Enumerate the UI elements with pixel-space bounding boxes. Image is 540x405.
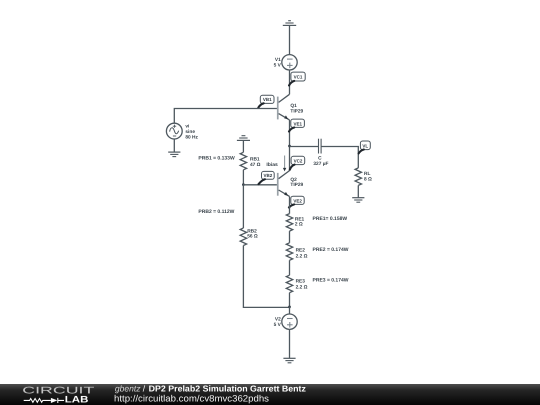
wire V1 to Q1 collector	[289, 70, 291, 94]
svg-text:LAB: LAB	[65, 393, 89, 404]
current arrow Ibias	[283, 156, 286, 172]
svg-text:/: /	[143, 383, 146, 393]
svg-text:PRB1 = 0.133W: PRB1 = 0.133W	[198, 155, 235, 161]
node flag VL	[359, 141, 371, 154]
footer bar	[0, 384, 540, 405]
svg-text:327 µF: 327 µF	[313, 161, 328, 167]
node flag VC2	[290, 156, 305, 169]
svg-text:http://circuitlab.com/cv8mvc36: http://circuitlab.com/cv8mvc362pdhs	[114, 393, 269, 403]
label RB2 56Ω	[247, 228, 258, 239]
wire RE3 to bottom junction	[289, 293, 291, 307]
svg-text:80 Hz: 80 Hz	[185, 135, 198, 141]
wire junction to capacitor	[290, 146, 319, 148]
wire RE2 to RE3	[289, 260, 291, 275]
wire Q1 emitter down to junction	[289, 120, 291, 146]
node flag VB2	[259, 171, 275, 184]
voltage source V2 5V	[282, 314, 297, 329]
label RB1 47Ω	[250, 157, 261, 168]
wire RL to ground	[357, 185, 359, 197]
svg-text:TIP29: TIP29	[290, 109, 303, 115]
svg-text:VC1: VC1	[294, 74, 303, 79]
wire top ground to V1	[289, 25, 291, 54]
label RL 8Ω	[364, 171, 372, 182]
voltage source V1 5V	[282, 55, 297, 70]
transistor Q2 TIP29	[277, 171, 290, 197]
svg-text:C: C	[318, 155, 322, 161]
ground GND above RB1 (inverted)	[237, 136, 250, 141]
label Q2 TIP29	[290, 177, 303, 188]
voltage source vi sine 80 Hz	[166, 123, 182, 139]
svg-text:5 V: 5 V	[274, 322, 282, 328]
wire RB2 to bottom junction	[243, 246, 289, 308]
svg-text:2 Ω: 2 Ω	[295, 222, 303, 228]
label V2 5V	[274, 317, 282, 329]
svg-text:RE3: RE3	[296, 278, 306, 284]
resistor RE2 2.2Ω	[286, 243, 292, 261]
capacitor C 327µF	[319, 139, 322, 154]
wire RE1 to RE2	[289, 231, 291, 243]
svg-text:V1: V1	[275, 57, 281, 63]
resistor RB2 56Ω	[242, 185, 244, 228]
node flag VB1	[258, 95, 274, 107]
resistor RL 8Ω	[355, 168, 361, 185]
wire junction to Q2 collector	[289, 146, 291, 171]
svg-text:PRE1= 0.158W: PRE1= 0.158W	[313, 216, 348, 222]
svg-text:2.2 Ω: 2.2 Ω	[296, 254, 308, 260]
label RE1 2Ω	[295, 217, 305, 228]
label Q1 TIP29	[290, 103, 303, 115]
svg-text:VC2: VC2	[294, 159, 303, 164]
ground GND top (above V1, inverted)	[283, 21, 296, 26]
label RE3 2.2Ω	[296, 278, 308, 290]
svg-text:RL: RL	[364, 171, 370, 177]
svg-text:RB1: RB1	[250, 157, 260, 163]
label C 327µF	[313, 155, 328, 167]
svg-text:47 Ω: 47 Ω	[250, 162, 261, 168]
wire Q2 emitter to RE1	[289, 196, 291, 213]
svg-text:V2: V2	[275, 317, 281, 323]
svg-text:vi: vi	[185, 123, 189, 129]
svg-text:PRE3 = 0.174W: PRE3 = 0.174W	[313, 277, 349, 283]
svg-text:TIP29: TIP29	[290, 182, 303, 188]
resistor RE1 2Ω	[286, 214, 292, 231]
wire junction to V2	[289, 307, 291, 314]
label V1 5V	[274, 57, 282, 69]
svg-text:sine: sine	[185, 129, 195, 135]
node flag VC1	[289, 72, 305, 85]
junction node bottom	[288, 306, 291, 309]
resistor RE3 2.2Ω	[286, 275, 292, 293]
logo wire squiggle	[24, 398, 64, 403]
wire junction to Q2 base	[243, 184, 277, 186]
svg-text:5 V: 5 V	[274, 62, 282, 68]
svg-text:VB2: VB2	[264, 173, 273, 178]
node flag VE1	[289, 119, 304, 131]
svg-text:RE1: RE1	[295, 217, 305, 223]
ground GND under RL	[352, 198, 364, 203]
ground GND under vi	[168, 152, 180, 157]
svg-text:56 Ω: 56 Ω	[247, 234, 258, 240]
ground GND under V2	[283, 358, 295, 363]
transistor Q1 TIP29	[277, 94, 290, 120]
label RE2 2.2Ω	[296, 248, 308, 260]
wire capacitor to VL corner	[321, 147, 358, 168]
svg-text:RE2: RE2	[296, 248, 306, 254]
label vi sine 80 Hz	[185, 123, 198, 140]
junction node output	[288, 145, 291, 148]
junction node VB2	[242, 183, 245, 186]
svg-text:VE1: VE1	[293, 121, 302, 126]
svg-text:PRE2 = 0.174W: PRE2 = 0.174W	[313, 247, 349, 253]
node flag VE2	[289, 196, 304, 207]
svg-text:PRB2 = 0.112W: PRB2 = 0.112W	[198, 209, 234, 215]
svg-text:RB2: RB2	[247, 228, 257, 234]
wire RB1 to junction	[242, 170, 244, 185]
wire vi to ground	[173, 139, 175, 152]
svg-text:8 Ω: 8 Ω	[364, 176, 372, 182]
svg-text:VL: VL	[362, 143, 368, 148]
wire V2 to ground	[289, 329, 291, 358]
svg-text:DP2 Prelab2 Simulation Garrett: DP2 Prelab2 Simulation Garrett Bentz	[149, 383, 306, 393]
wire ground to RB1	[242, 140, 244, 152]
svg-text:VE2: VE2	[293, 198, 302, 203]
svg-text:2.2 Ω: 2.2 Ω	[296, 284, 308, 290]
resistor RB1 47Ω	[240, 152, 246, 169]
svg-text:Q1: Q1	[290, 103, 297, 109]
svg-text:Ibias: Ibias	[266, 162, 278, 168]
wire vi source to Q1 base	[174, 109, 277, 124]
svg-text:gbentz: gbentz	[115, 383, 141, 393]
svg-text:VB1: VB1	[263, 97, 272, 102]
